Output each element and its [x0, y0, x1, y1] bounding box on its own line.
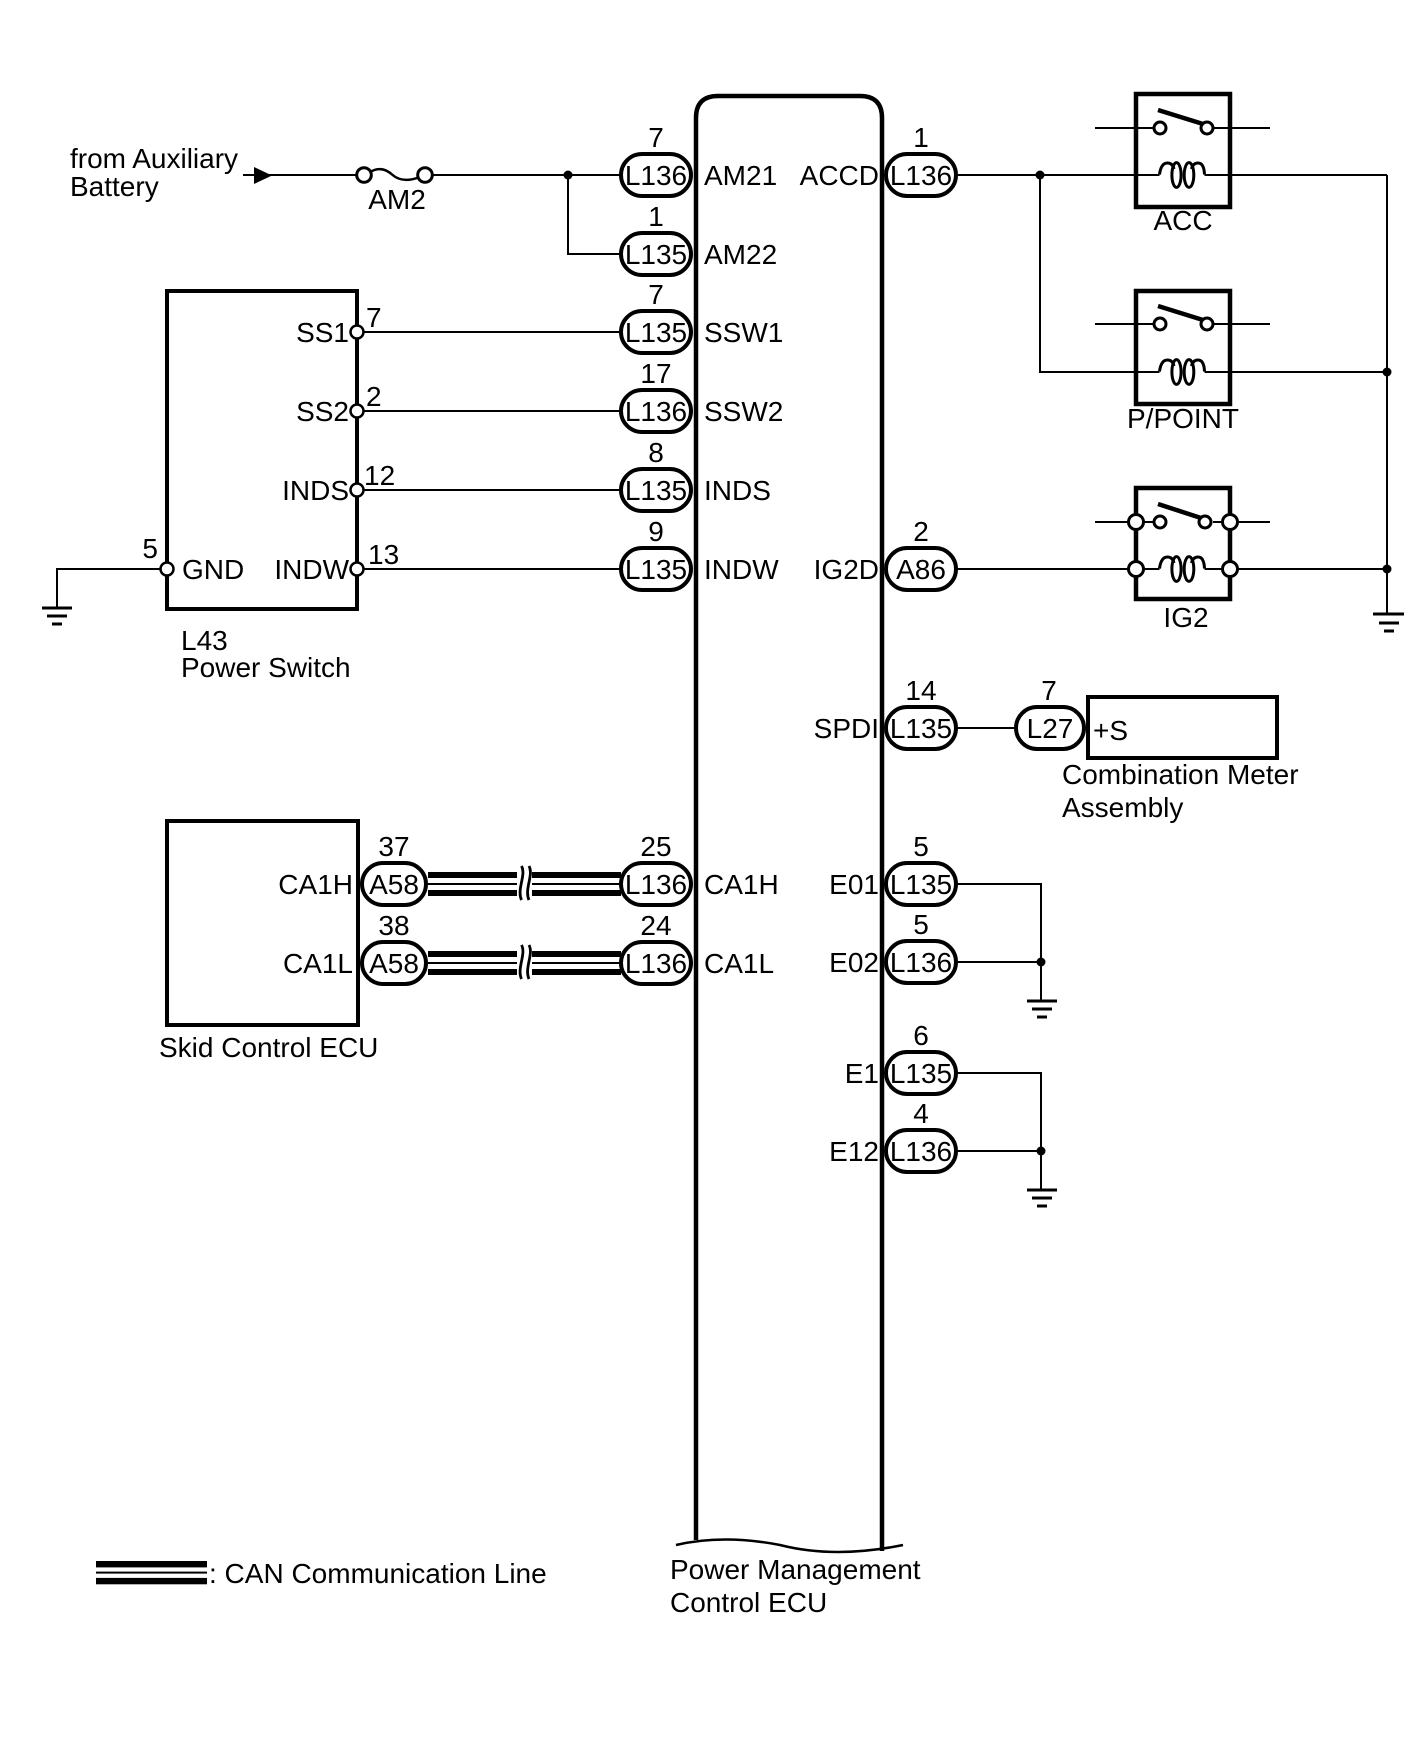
connector L27 pin 7: [1016, 675, 1084, 749]
power switch pin GND (5): [142, 533, 244, 585]
svg-text:L136: L136: [625, 160, 687, 191]
svg-text:CA1L: CA1L: [704, 948, 774, 979]
svg-text:1: 1: [648, 201, 664, 232]
junction node right bus at IG2: [1383, 565, 1392, 574]
svg-text:A58: A58: [369, 869, 419, 900]
svg-text:AM2: AM2: [368, 184, 426, 215]
wire P/POINT coil to right bus: [1205, 371, 1388, 373]
wire: battery feed to fuse AM2: [243, 174, 357, 176]
svg-text:12: 12: [364, 460, 395, 491]
relay ACC: [1095, 94, 1270, 236]
svg-text:ACC: ACC: [1153, 205, 1212, 236]
power switch L43 box: [167, 291, 357, 609]
svg-text:Assembly: Assembly: [1062, 792, 1183, 823]
svg-text:GND: GND: [182, 554, 244, 585]
svg-text:INDS: INDS: [704, 475, 771, 506]
node: from Auxiliary Battery label: [70, 143, 238, 202]
wire INDW: [364, 568, 621, 570]
wire IG2D to IG2 relay coil: [956, 568, 1160, 570]
svg-text:7: 7: [366, 302, 382, 333]
wire ACCD to ACC relay coil: [956, 174, 1160, 176]
relay IG2: [1095, 488, 1270, 633]
svg-text:IG2: IG2: [1163, 602, 1208, 633]
connector A58 pin 38 (CA1L): [362, 910, 426, 984]
wire E12 to junction: [956, 1150, 1041, 1152]
svg-text:E02: E02: [829, 947, 879, 978]
junction node E1/E12: [1037, 1147, 1046, 1156]
svg-text:IG2D: IG2D: [814, 554, 879, 585]
svg-text:A58: A58: [369, 948, 419, 979]
svg-text:4: 4: [913, 1098, 929, 1129]
svg-text:AM21: AM21: [704, 160, 777, 191]
svg-text:: CAN Communication Line: : CAN Communication Line: [209, 1558, 547, 1589]
svg-text:2: 2: [913, 516, 929, 547]
svg-text:37: 37: [378, 831, 409, 862]
power switch pin INDW (13): [274, 539, 399, 585]
svg-text:7: 7: [648, 279, 664, 310]
power switch pin SS1 (7): [296, 302, 382, 348]
connector L136 pin 7 (AM21): [621, 122, 691, 196]
svg-text:8: 8: [648, 437, 664, 468]
svg-text:SS1: SS1: [296, 317, 349, 348]
ground: power switch: [42, 608, 72, 624]
svg-text:L136: L136: [625, 948, 687, 979]
svg-text:CA1L: CA1L: [283, 948, 353, 979]
fuse AM2: [357, 168, 433, 215]
svg-text:L135: L135: [890, 713, 952, 744]
svg-text:5: 5: [913, 909, 929, 940]
svg-text:13: 13: [368, 539, 399, 570]
connector L135 pin 9 (INDW): [621, 516, 691, 590]
svg-text:5: 5: [913, 831, 929, 862]
svg-text:P/POINT: P/POINT: [1127, 403, 1239, 434]
svg-text:INDW: INDW: [704, 554, 779, 585]
svg-text:1: 1: [913, 122, 929, 153]
svg-text:SSW1: SSW1: [704, 317, 783, 348]
wire right bus vertical: [1386, 175, 1388, 613]
svg-text:+S: +S: [1093, 715, 1128, 746]
wire: branch to AM22: [568, 175, 621, 254]
svg-text:2: 2: [366, 381, 382, 412]
wire E1 to ground: [956, 1073, 1041, 1189]
ground: right bus: [1373, 614, 1404, 631]
CAN line CA1H: [428, 865, 621, 902]
svg-text:14: 14: [905, 675, 936, 706]
ground: E01/E02: [1027, 1001, 1057, 1017]
svg-text:L135: L135: [890, 1058, 952, 1089]
svg-text:ACCD: ACCD: [800, 160, 879, 191]
ECU body: Power Management Control ECU: [696, 96, 882, 1551]
connector L136 pin 17 (SSW2): [621, 358, 691, 432]
legend: CAN communication line sample: [96, 1558, 547, 1589]
svg-text:L135: L135: [625, 554, 687, 585]
combination meter assembly box: [1062, 697, 1299, 823]
wire GND to ground: [57, 569, 160, 607]
svg-text:7: 7: [1041, 675, 1057, 706]
svg-text:L136: L136: [890, 947, 952, 978]
svg-text:L135: L135: [625, 239, 687, 270]
svg-text:38: 38: [378, 910, 409, 941]
wire SPDI to L27: [956, 727, 1014, 729]
junction node right bus at P/POINT: [1383, 368, 1392, 377]
junction node E01/E02: [1037, 958, 1046, 967]
svg-text:6: 6: [913, 1020, 929, 1051]
svg-text:AM22: AM22: [704, 239, 777, 270]
connector L135 pin 8 (INDS): [621, 437, 691, 511]
svg-text:5: 5: [142, 533, 158, 564]
svg-text:17: 17: [640, 358, 671, 389]
power switch pin INDS (12): [282, 460, 395, 506]
svg-text:INDS: INDS: [282, 475, 349, 506]
CAN line CA1L: [428, 944, 621, 981]
svg-text:CA1H: CA1H: [278, 869, 353, 900]
svg-text:Power Management: Power Management: [670, 1554, 921, 1585]
connector L135 pin 7 (SSW1): [621, 279, 691, 353]
svg-text:SSW2: SSW2: [704, 396, 783, 427]
svg-text:E01: E01: [829, 869, 879, 900]
svg-text:SS2: SS2: [296, 396, 349, 427]
skid control ECU box: [159, 821, 378, 1063]
svg-text:7: 7: [648, 122, 664, 153]
svg-text:SPDI: SPDI: [814, 713, 879, 744]
power switch pin SS2 (2): [296, 381, 382, 427]
svg-text:25: 25: [640, 831, 671, 862]
svg-text:A86: A86: [896, 554, 946, 585]
svg-text:Battery: Battery: [70, 171, 159, 202]
svg-text:L136: L136: [625, 396, 687, 427]
svg-text:Combination Meter: Combination Meter: [1062, 759, 1299, 790]
svg-text:L136: L136: [890, 1136, 952, 1167]
svg-text:24: 24: [640, 910, 671, 941]
svg-text:L135: L135: [625, 475, 687, 506]
svg-text:Skid Control ECU: Skid Control ECU: [159, 1032, 378, 1063]
connector A58 pin 37 (CA1H): [362, 831, 426, 905]
wire branch down to P/POINT coil: [1040, 175, 1160, 372]
junction node ACCD branch: [1036, 171, 1045, 180]
wire E01 to ground: [956, 884, 1041, 1000]
svg-text:L136: L136: [625, 869, 687, 900]
svg-text:L135: L135: [625, 317, 687, 348]
svg-text:L135: L135: [890, 869, 952, 900]
arrow: feed direction: [254, 167, 272, 184]
junction node at AM2 branch: [564, 171, 573, 180]
svg-text:L136: L136: [890, 160, 952, 191]
wire SS2 to SSW2: [364, 410, 621, 412]
svg-text:INDW: INDW: [274, 554, 349, 585]
connector L135 pin 1 (AM22): [621, 201, 691, 275]
svg-text:L27: L27: [1027, 713, 1074, 744]
svg-text:CA1H: CA1H: [704, 869, 779, 900]
connector L136 pin 25 (CA1H): [621, 831, 691, 905]
wire SS1 to SSW1: [364, 331, 621, 333]
svg-text:E12: E12: [829, 1136, 879, 1167]
svg-text:from Auxiliary: from Auxiliary: [70, 143, 238, 174]
svg-text:9: 9: [648, 516, 664, 547]
connector L136 pin 24 (CA1L): [621, 910, 691, 984]
ECU wavy bottom: [676, 1540, 903, 1553]
ground: E1/E12: [1027, 1190, 1057, 1206]
svg-text:Power Switch: Power Switch: [181, 652, 351, 683]
wire INDS: [364, 489, 621, 491]
svg-text:E1: E1: [845, 1058, 879, 1089]
wire: fuse to pin AM21: [432, 174, 621, 176]
svg-text:Control ECU: Control ECU: [670, 1587, 827, 1618]
relay P/POINT: [1095, 291, 1270, 434]
wire E02 to junction: [956, 961, 1041, 963]
